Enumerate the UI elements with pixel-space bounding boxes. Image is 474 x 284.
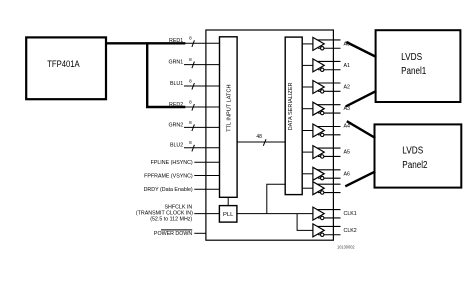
svg-text:BLU2: BLU2	[170, 143, 183, 149]
svg-text:CLK2: CLK2	[344, 228, 357, 234]
svg-text:GRN1: GRN1	[168, 60, 183, 66]
svg-text:RED2: RED2	[169, 102, 183, 108]
svg-text:A2: A2	[344, 85, 351, 91]
svg-text:8: 8	[189, 78, 192, 83]
svg-text:(52.5 to 112 MHz): (52.5 to 112 MHz)	[150, 217, 192, 223]
svg-text:10130002: 10130002	[337, 244, 355, 249]
svg-text:DATA SERIALIZER: DATA SERIALIZER	[288, 82, 294, 130]
svg-text:A6: A6	[344, 171, 351, 177]
svg-text:Panel1: Panel1	[401, 66, 427, 77]
svg-text:FPLINE (HSYNC): FPLINE (HSYNC)	[151, 160, 193, 166]
svg-text:FPFRAME (VSYNC): FPFRAME (VSYNC)	[144, 173, 193, 179]
svg-text:GRN2: GRN2	[168, 122, 183, 128]
svg-text:TFP401A: TFP401A	[47, 59, 80, 69]
svg-text:TTL INPUT LATCH: TTL INPUT LATCH	[226, 84, 232, 131]
svg-text:POWER DOWN: POWER DOWN	[154, 231, 192, 237]
svg-text:Panel2: Panel2	[402, 160, 428, 171]
svg-text:LVDS: LVDS	[401, 52, 422, 63]
svg-text:RED1: RED1	[169, 38, 183, 44]
svg-text:8: 8	[189, 99, 192, 104]
svg-text:CLK1: CLK1	[344, 211, 357, 217]
svg-text:A0: A0	[344, 41, 351, 47]
svg-text:LVDS: LVDS	[402, 146, 423, 157]
svg-text:A3: A3	[344, 106, 351, 112]
svg-text:A1: A1	[344, 63, 351, 69]
svg-text:PLL: PLL	[223, 212, 234, 218]
svg-text:8: 8	[189, 140, 192, 145]
svg-text:48: 48	[256, 134, 262, 140]
svg-text:8: 8	[189, 57, 192, 62]
svg-text:8: 8	[189, 120, 192, 125]
svg-text:DRDY (Data Enable): DRDY (Data Enable)	[144, 187, 193, 193]
svg-text:A5: A5	[344, 150, 351, 156]
svg-text:8: 8	[189, 36, 192, 41]
svg-text:BLU1: BLU1	[170, 81, 183, 87]
svg-text:A4: A4	[344, 123, 351, 129]
